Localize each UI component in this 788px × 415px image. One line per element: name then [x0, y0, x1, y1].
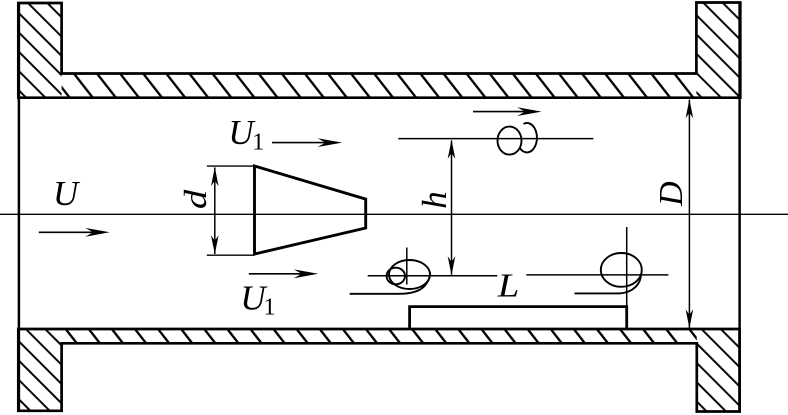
svg-text:L: L — [497, 267, 520, 304]
svg-text:d: d — [177, 189, 213, 209]
svg-text:U: U — [53, 174, 81, 213]
svg-text:1: 1 — [264, 294, 276, 320]
svg-text:1: 1 — [252, 130, 264, 156]
svg-text:D: D — [653, 181, 690, 207]
svg-text:h: h — [415, 191, 454, 209]
